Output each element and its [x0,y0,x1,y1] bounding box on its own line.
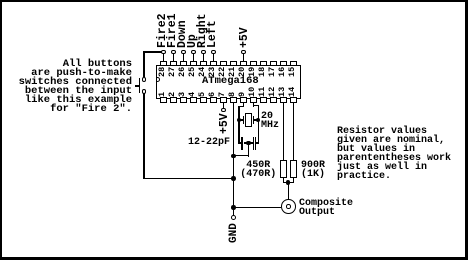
label 12-22pF [188,138,230,147]
wire GND stub [233,207,234,215]
label Right (pin 24) [198,14,207,49]
wire output node to connector shell [234,207,282,208]
terminal circle GND [231,215,236,220]
wire switch top vertical [143,51,144,77]
label Composite Output [299,199,353,217]
IC U1 ATmega168 body [156,65,301,99]
IC U1 pin-1 end notch [155,77,160,82]
junction crystal left [237,118,242,123]
label R1 value 450R (470R) [240,161,276,179]
label Left (pin 23) [208,21,217,49]
junction output node [231,205,236,210]
note right paragraph [337,127,451,181]
wire pin 10 jog horizontal [253,105,259,106]
IC U1 label ATmega168 [202,77,259,86]
label +5V (pin 7) [220,113,229,134]
crystal X1 right plate [253,116,254,125]
wire stub pin 20 [243,54,244,61]
wire stub pin 24 [203,54,204,61]
terminal circle pin 20 (+5V) [241,50,246,55]
label Down (pin 26) [178,21,187,49]
switch S1 bottom contact [142,89,147,94]
switch S1 top contact [142,77,147,82]
wire stub pin 7 [223,103,224,108]
wire pin 10 stub [253,103,254,107]
IC U1 top pin numbers 28-15 [158,67,167,77]
wire stub pin 27 [173,54,174,61]
IC U1 bottom pin numbers 1-14 [158,92,167,97]
connector J1 center pin [286,204,291,209]
label Up (pin 25) [188,35,197,49]
label Fire1 (pin 27) [168,14,177,49]
terminal circle pin 7 (+5V) [221,108,226,113]
wire pin 14 vertical [293,103,294,161]
label R2 value 900R (1K) [301,161,325,179]
label 20 MHz [261,112,279,130]
wire resistor join bar [283,182,294,183]
junction rail/pin8 [231,176,236,181]
label Fire2 (pin 28) [158,14,167,49]
wire switch bottom vertical [143,93,144,179]
wire crystal left vertical [238,106,239,144]
terminal circle pin 26 (Down) [181,50,186,55]
wire crystal lead left [239,119,243,120]
resistor R2 900R body [290,160,297,178]
wire stub pin 25 [193,54,194,61]
label GND [230,223,239,243]
wire stub pin 26 [183,54,184,61]
resistor R1 450R body [280,160,287,178]
wire crystal lead right [254,119,258,120]
wire right cap lead [256,142,259,143]
crystal X1 left plate [243,116,244,125]
junction caps midpoint [246,141,251,146]
capacitor C2 plates [253,137,254,150]
junction resistor join [286,180,291,185]
terminal circle pin 28 (Fire2) [161,50,166,55]
wire R1 bottom stub [283,177,284,183]
label +5V (pin 20) [240,28,249,49]
wire pin 9 stub [243,103,244,108]
wire left cap lead [238,142,241,143]
wire switch to pin 28 horizontal [143,51,162,52]
connector J1 outer shell [281,199,296,214]
terminal circle pin 25 (Up) [191,50,196,55]
capacitor C1 plates [241,137,242,150]
junction crystal right [256,118,261,123]
terminal circle pin 23 (Left) [211,50,216,55]
wire pin 8 vertical (GND) [233,103,234,209]
wire caps branch horizontal [234,155,249,156]
crystal X1 body [245,113,252,128]
wire switch return rail horizontal [143,178,234,179]
wire R2 bottom stub [293,177,294,183]
wire pin 9 jog horizontal [238,106,244,107]
wire between caps [244,142,255,143]
wire stub pin 28 [163,54,164,61]
wire caps midpoint down [248,143,249,157]
wire stub pin 23 [213,54,214,61]
IC U1 top pin row (pins 28-15) [160,61,167,67]
terminal circle pin 24 (Right) [201,50,206,55]
wire pin 13 vertical [283,103,284,161]
switch S1 actuator [139,78,140,94]
note left paragraph [0,60,132,114]
terminal circle pin 27 (Fire1) [171,50,176,55]
wire junction down to connector [288,183,289,205]
junction caps-branch/pin8 [231,154,236,159]
IC U1 bottom pin row (pins 1-14) [160,97,167,103]
wire crystal right vertical [258,105,259,144]
